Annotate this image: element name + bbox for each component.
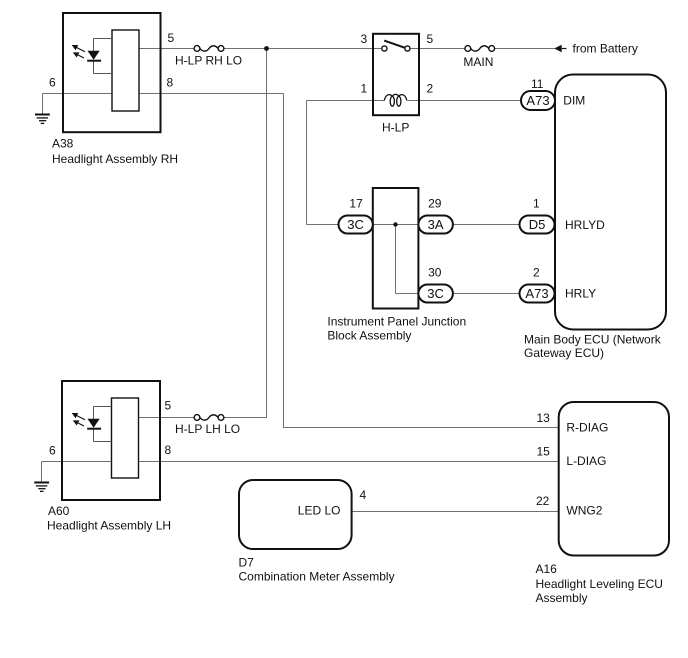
wire: vertical drop relay pin1 branch — [306, 101, 308, 225]
wire: A38 ground drop — [42, 94, 44, 115]
junction dot node in junction block — [393, 222, 397, 226]
headlight assembly RH: connector block rectangle — [112, 30, 139, 111]
connector oval 3C pin30 — [418, 285, 453, 303]
ground A60 — [34, 483, 49, 492]
svg-text:Headlight Assembly RH: Headlight Assembly RH — [52, 152, 178, 166]
svg-text:3C: 3C — [347, 217, 364, 232]
wire: A60 pin6/pin8 row to A16 pin15 L-DIAG — [42, 461, 559, 463]
ground A38 — [35, 115, 50, 124]
svg-text:13: 13 — [537, 411, 551, 425]
wire: long vertical from top junction to LH fuse row — [266, 49, 268, 418]
wire: LH fuse row corner to fuse — [224, 417, 267, 419]
wire: fuse H-LP RH LO to relay pin3 contact — [224, 48, 382, 50]
LED arrows A60 — [73, 414, 85, 426]
svg-text:HRLYD: HRLYD — [565, 218, 605, 232]
main body ECU box — [555, 75, 666, 330]
svg-text:Headlight Assembly LH: Headlight Assembly LH — [47, 519, 171, 533]
svg-text:Headlight Leveling ECU: Headlight Leveling ECU — [536, 577, 663, 591]
headlight leveling ECU A16 box — [559, 402, 669, 556]
svg-text:2: 2 — [427, 82, 434, 96]
svg-text:8: 8 — [167, 76, 174, 90]
LED diode A38 — [87, 51, 101, 61]
svg-text:3C: 3C — [427, 286, 444, 301]
connector oval A73 pin2 — [520, 285, 555, 303]
svg-text:Block Assembly: Block Assembly — [327, 329, 411, 343]
connector oval A73 pin11 — [521, 91, 555, 110]
svg-text:6: 6 — [49, 444, 56, 458]
svg-text:LED LO: LED LO — [298, 504, 341, 518]
wire: inside junction block 3C to 3A — [373, 224, 419, 226]
svg-text:D5: D5 — [529, 217, 546, 232]
svg-text:L-DIAG: L-DIAG — [566, 454, 606, 468]
svg-text:D7: D7 — [239, 555, 255, 569]
svg-text:MAIN: MAIN — [463, 55, 493, 69]
svg-text:3A: 3A — [428, 217, 444, 232]
LED diode A60 — [87, 419, 101, 429]
svg-text:1: 1 — [361, 82, 368, 96]
junction dot node top — [264, 46, 269, 51]
LED wiring loop A38 — [94, 39, 113, 74]
combination meter D7 box — [239, 480, 352, 549]
svg-text:from Battery: from Battery — [573, 41, 638, 55]
wire: into junction block oval 3C pin17 — [307, 224, 339, 226]
svg-text:5: 5 — [427, 32, 434, 46]
LED wiring loop A60 — [94, 407, 112, 442]
svg-text:11: 11 — [531, 77, 544, 91]
instrument panel junction block rectangle — [373, 188, 419, 309]
relay coil — [384, 94, 407, 106]
svg-text:DIM: DIM — [563, 94, 585, 108]
svg-text:H-LP RH LO: H-LP RH LO — [175, 54, 242, 68]
svg-text:A38: A38 — [52, 137, 74, 151]
fuse MAIN — [465, 46, 495, 52]
wire: top row A38 pin5 to fuse H-LP RH LO — [139, 48, 194, 50]
svg-text:Assembly: Assembly — [536, 591, 588, 605]
svg-text:6: 6 — [49, 76, 56, 90]
svg-text:A73: A73 — [526, 93, 549, 108]
wire: fuse MAIN to battery arrow — [495, 48, 555, 50]
headlight assembly LH: connector block rectangle — [112, 398, 139, 478]
relay H-LP box — [373, 34, 419, 115]
wire: relay pin1 to junction block branch — [307, 100, 385, 102]
fuse H-LP LH LO — [194, 415, 224, 421]
svg-text:2: 2 — [533, 266, 540, 280]
svg-text:22: 22 — [536, 494, 550, 508]
svg-text:1: 1 — [533, 197, 540, 211]
wire: vertical inside junction block — [395, 225, 397, 294]
svg-text:17: 17 — [349, 197, 363, 211]
svg-text:HRLY: HRLY — [565, 287, 596, 301]
svg-text:H-LP LH LO: H-LP LH LO — [175, 422, 240, 436]
svg-text:Combination Meter Assembly: Combination Meter Assembly — [239, 570, 395, 584]
svg-text:3: 3 — [361, 32, 368, 46]
wire: D7 pin4 to A16 pin22 WNG2 — [352, 511, 559, 513]
svg-text:H-LP: H-LP — [382, 120, 409, 134]
relay switch contact — [382, 41, 410, 52]
wire: fuse H-LP LH LO to A60 pin5 — [139, 417, 195, 419]
svg-text:A73: A73 — [525, 286, 548, 301]
LED arrows A38 — [73, 46, 85, 58]
wire: relay pin2 to connector A73 pin11 — [408, 100, 522, 102]
svg-text:5: 5 — [165, 399, 172, 413]
svg-text:4: 4 — [360, 488, 367, 502]
connector oval 3C pin17 — [339, 216, 373, 234]
svg-text:30: 30 — [428, 266, 442, 280]
svg-text:8: 8 — [165, 443, 172, 457]
svg-text:5: 5 — [168, 31, 175, 45]
connector oval 3A pin29 — [418, 216, 453, 234]
wire: vertical A38 pin8 to R-DIAG row — [283, 94, 285, 429]
svg-text:A16: A16 — [536, 562, 558, 576]
svg-text:A60: A60 — [48, 504, 70, 518]
wire: relay pin5 to fuse MAIN — [410, 48, 465, 50]
svg-text:15: 15 — [537, 445, 551, 459]
connector oval D5 pin1 — [520, 216, 555, 234]
svg-text:R-DIAG: R-DIAG — [566, 421, 608, 435]
svg-text:29: 29 — [428, 197, 442, 211]
svg-text:Gateway ECU): Gateway ECU) — [524, 346, 604, 360]
arrow from Battery — [554, 45, 566, 52]
wire: oval 3A pin29 to oval D5 pin1 — [453, 224, 520, 226]
svg-text:Main Body ECU (Network: Main Body ECU (Network — [524, 333, 662, 347]
headlight assembly RH box A38 — [63, 13, 161, 132]
wire: A60 ground drop — [41, 462, 43, 483]
svg-text:WNG2: WNG2 — [566, 504, 602, 518]
headlight assembly LH box A60 — [62, 381, 160, 500]
wire: oval 3C pin30 to oval A73 pin2 — [453, 293, 520, 295]
wire: R-DIAG row to A16 pin13 — [284, 427, 559, 429]
svg-text:Instrument Panel Junction: Instrument Panel Junction — [327, 315, 466, 329]
wire: A38 pin6/pin8 row — [43, 93, 284, 95]
fuse H-LP RH LO — [194, 46, 224, 52]
wire: to oval 3C pin30 — [396, 293, 419, 295]
